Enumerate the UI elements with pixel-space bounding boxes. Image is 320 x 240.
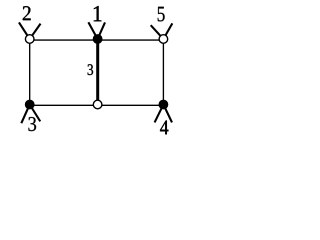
label 4	[160, 120, 168, 134]
leg of node 1 (right)	[98, 23, 104, 37]
node 1 (filled)	[93, 34, 103, 44]
wire right edge	[162, 40, 164, 105]
leg of node 2 (right)	[31, 24, 40, 37]
leg of node 2 (left)	[20, 23, 29, 37]
label 2	[23, 6, 31, 20]
leg of node 3 (left)	[22, 107, 29, 123]
label 3 (node)	[28, 117, 36, 131]
wire bottom edge	[30, 104, 164, 106]
label 5	[158, 7, 165, 22]
label 1	[94, 6, 102, 21]
wire top edge	[30, 39, 164, 41]
node 2 (open)	[25, 35, 34, 44]
leg of node 5 (left)	[151, 26, 162, 37]
leg of node 4 (left)	[155, 106, 162, 121]
node 5 (open)	[159, 35, 168, 44]
leg of node 3 (right)	[31, 106, 40, 120]
edge label 3	[88, 64, 93, 75]
leg of node 4 (right)	[164, 106, 171, 121]
leg of node 5 (right)	[164, 24, 171, 37]
node (open, bottom middle)	[93, 100, 102, 109]
node 4 (filled)	[159, 100, 169, 110]
node 3 (filled)	[25, 100, 35, 110]
thick middle edge (multiplicity 3)	[96, 39, 99, 105]
wire left edge	[29, 40, 31, 105]
leg of node 1 (left)	[89, 23, 97, 37]
